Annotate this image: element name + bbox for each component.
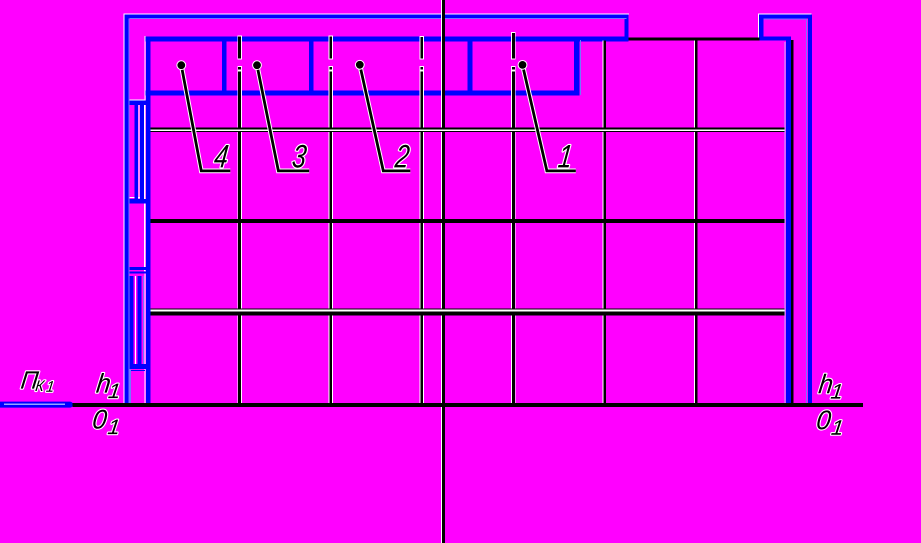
ground-plane trace Pk1 blue bar [0,402,70,408]
position number 4 [214,145,229,167]
column tie bar 3b [125,271,151,273]
label Pk1 picture plane [21,371,53,391]
column seg3 lattice highlight [143,276,145,364]
column bottom segment highlight [129,369,131,403]
leader line callout 2 [355,60,410,171]
position number 1 [558,145,571,167]
wall axis line 1 seg3 [238,71,241,404]
panel band right edge [574,37,579,96]
parapet tab left vertical [759,15,763,39]
label O1 origin right [817,410,841,434]
column tie bar 4 [125,364,151,369]
wall axis line 4 seg2 [512,67,515,70]
column tie bar 1 [125,101,151,106]
leader line callout 1 [518,60,576,171]
wall axis line 3 seg1 [420,37,423,59]
column tie bar 2 [125,199,151,204]
grid right edge dark line [791,40,794,404]
leader line callout 3 [252,60,309,171]
outer frame left inner highlight [128,19,130,403]
floor line 1 upper [150,128,784,130]
panel band top edge [146,36,629,41]
wall axis line 2 seg2 [329,67,332,70]
right wall outer vertical [808,15,812,407]
center axis halo [440,0,442,543]
band right edge highlight [579,40,581,95]
right wall inner highlight [806,19,808,403]
floor line 1 lower [150,130,784,132]
wall axis line 2 seg3 [329,71,332,404]
floor line 2 [150,219,784,223]
label h1 horizon right [818,374,841,399]
white accent layer under blue structure [124,14,812,405]
outer frame top inner highlight [130,18,627,20]
parapet bar top right [759,36,791,40]
ground line h1 [73,403,864,407]
outer frame top edge [125,15,629,19]
grid vertical 6 [695,41,698,404]
outer frame left wall [125,15,129,407]
wall axis line 4 seg3 [512,71,515,404]
wall axis line 1 seg2 [238,67,241,70]
column inner lattice seg1 right [140,105,144,199]
label O1 origin left [93,410,118,434]
label h1 horizon left [96,373,119,398]
leader line callout 4 [176,60,230,171]
wall axis line 2 seg1 [329,36,332,58]
tab top inner highlight [764,18,807,20]
panel band divider 1 [222,38,227,93]
floor line 3 lower [150,311,784,315]
column inner lattice seg3 left [130,276,134,364]
wall axis line 4 seg1 [512,33,515,59]
parapet tab top edge [759,15,812,19]
wall axis line 3 seg2 [420,67,423,70]
roof line right section [629,37,760,40]
grid right edge blue wall [786,37,791,407]
white gap of double floor line 1 [150,130,784,131]
panel band bottom edge [146,91,580,96]
grid right edge highlight [784,42,786,403]
column inner lattice seg3 right [137,276,141,364]
panel band left edge / column right chord [146,37,151,407]
position number 2 [394,145,410,168]
panel band divider 3 [468,38,473,93]
white gap of double floor line 3 [150,310,784,312]
position number 3 [292,145,306,168]
halo layer for black verticals [240,32,695,405]
wall axis line 1 seg1 [238,36,241,58]
outer frame step-down right end [624,15,628,41]
panel band divider 2 [309,38,314,93]
floor line 3 upper [150,308,784,310]
column inner lattice seg1 left [134,105,138,199]
column tie bar 3a [125,267,151,270]
grid vertical 5 [604,41,607,404]
wall axis line 3 seg3 [420,71,423,404]
column tie bar 4 lower thin [128,369,145,371]
center axis line [442,0,445,543]
